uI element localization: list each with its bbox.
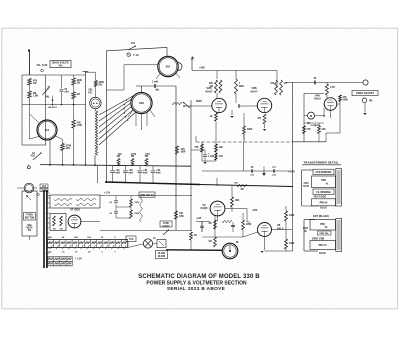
svg-text:1570: 1570 <box>131 154 137 156</box>
svg-text:BLUE: BLUE <box>320 207 327 210</box>
svg-text:100K: 100K <box>289 243 295 245</box>
svg-text:LEADS: LEADS <box>162 225 170 228</box>
svg-text:PRI: PRI <box>320 222 325 226</box>
svg-text:Adj: Adj <box>155 89 159 92</box>
svg-text:+250: +250 <box>199 66 205 70</box>
svg-text:1M: 1M <box>77 94 80 96</box>
svg-text:1M: 1M <box>240 189 243 191</box>
svg-text:132V: 132V <box>303 228 309 230</box>
svg-text:mfd: mfd <box>143 171 148 174</box>
svg-text:66A: 66A <box>166 66 171 69</box>
svg-text:mfd: mfd <box>115 171 120 174</box>
svg-text:640: 640 <box>139 101 144 105</box>
svg-text:6AU7: 6AU7 <box>205 89 213 93</box>
svg-text:mfd: mfd <box>272 174 277 176</box>
svg-text:PLT: PLT <box>88 93 93 95</box>
svg-text:27K: 27K <box>307 129 312 131</box>
svg-text:SCHEMATIC DIAGRAM OF MODEL: SCHEMATIC DIAGRAM OF MODEL 330 B <box>138 274 260 280</box>
svg-text:3K: 3K <box>62 237 65 239</box>
svg-text:10W: 10W <box>181 152 187 154</box>
svg-text:50-60: 50-60 <box>303 186 310 188</box>
svg-text:+125: +125 <box>196 218 202 220</box>
svg-text:500K: 500K <box>343 100 349 102</box>
svg-text:ADJUST: ADJUST <box>48 106 57 109</box>
svg-text:12K: 12K <box>322 129 327 131</box>
svg-text:220K: 220K <box>246 224 252 226</box>
svg-text:4.5V: 4.5V <box>145 153 150 156</box>
svg-text:15K: 15K <box>181 149 186 151</box>
svg-text:F 1A: F 1A <box>134 54 140 57</box>
svg-text:V7 OD3: V7 OD3 <box>70 208 80 212</box>
svg-text:6AQ5: 6AQ5 <box>201 206 208 210</box>
svg-text:10%: 10% <box>66 148 71 150</box>
svg-text:TVS: TVS <box>129 239 134 241</box>
svg-text:PB: PB <box>369 100 373 103</box>
svg-text:MEG: MEG <box>239 86 244 88</box>
svg-text:BLOW: BLOW <box>158 256 166 258</box>
svg-text:6AL5: 6AL5 <box>314 96 321 100</box>
svg-text:GRN YEL: GRN YEL <box>319 233 329 235</box>
svg-text:+ 1.5V: + 1.5V <box>288 171 295 173</box>
svg-text:FIL WINDING: FIL WINDING <box>316 192 331 194</box>
svg-text:M: M <box>310 114 312 118</box>
svg-text:SERIAL 2023 B ABOVE: SERIAL 2023 B ABOVE <box>167 286 226 292</box>
svg-text:BLUE: BLUE <box>319 252 326 255</box>
svg-text:GRNT GRN: GRNT GRN <box>312 238 325 240</box>
svg-text:1M: 1M <box>208 241 211 243</box>
svg-text:POWER SUPPLY & VOLTMETER S: POWER SUPPLY & VOLTMETER SECTION <box>146 281 247 287</box>
svg-text:o Adjust: o Adjust <box>310 124 319 127</box>
svg-text:+ 1.5V: + 1.5V <box>75 259 82 261</box>
svg-text:BAL: BAL <box>45 96 50 99</box>
svg-text:1M: 1M <box>53 229 56 231</box>
svg-text:BUTTON: BUTTON <box>25 218 35 220</box>
svg-text:100K: 100K <box>134 202 140 204</box>
svg-text:mfd: mfd <box>156 171 161 174</box>
svg-text:1.5M: 1.5M <box>33 96 38 98</box>
svg-text:4.7K: 4.7K <box>330 86 335 89</box>
svg-text:1M: 1M <box>208 223 211 225</box>
svg-text:PUSH: PUSH <box>26 215 33 217</box>
svg-text:HEAT WDG: HEAT WDG <box>314 196 327 199</box>
svg-text:390K: 390K <box>247 129 253 131</box>
svg-text:PRI #2: PRI #2 <box>320 201 328 205</box>
svg-text:1 mfd: 1 mfd <box>152 82 159 84</box>
svg-text:FIL. 6.3V: FIL. 6.3V <box>37 63 48 67</box>
svg-text:100K: 100K <box>289 215 295 217</box>
svg-text:15K: 15K <box>179 213 184 215</box>
svg-text:1 mfd: 1 mfd <box>208 156 215 158</box>
svg-text:TRANSFORMER DETAIL: TRANSFORMER DETAIL <box>303 161 338 165</box>
svg-text:mfd: mfd <box>65 92 70 94</box>
svg-text:1.5W: 1.5W <box>77 125 83 127</box>
svg-text:+250: +250 <box>252 210 258 212</box>
svg-text:PRI #4: PRI #4 <box>319 243 327 247</box>
svg-text:15K: 15K <box>48 237 52 239</box>
svg-text:6AU7: 6AU7 <box>250 89 258 93</box>
svg-text:+1.5V: +1.5V <box>104 193 111 195</box>
svg-text:ZERO ADJUST: ZERO ADJUST <box>356 91 374 95</box>
svg-text:TIME DELAY: TIME DELAY <box>140 194 154 197</box>
svg-text:SLOW: SLOW <box>158 253 166 255</box>
svg-text:GRY (BLACK): GRY (BLACK) <box>313 215 329 218</box>
svg-text:100K: 100K <box>134 213 140 215</box>
svg-text:ADJ: ADJ <box>30 155 35 158</box>
svg-text:115V: 115V <box>303 183 309 185</box>
svg-text:66A: 66A <box>45 129 50 132</box>
svg-text:39K: 39K <box>235 200 240 202</box>
svg-text:22K: 22K <box>209 83 214 85</box>
svg-text:1K: 1K <box>210 116 213 118</box>
svg-text:mfd: mfd <box>250 174 255 176</box>
svg-text:V81: V81 <box>88 90 93 92</box>
svg-text:115: 115 <box>131 42 136 45</box>
svg-text:1M: 1M <box>60 229 63 231</box>
svg-text:5%: 5% <box>28 230 31 232</box>
svg-text:PRI: PRI <box>321 178 326 182</box>
svg-text:HTR WINDING: HTR WINDING <box>316 172 332 174</box>
svg-text:75K: 75K <box>194 147 199 149</box>
svg-text:F1A: F1A <box>42 185 47 188</box>
svg-text:300K: 300K <box>196 100 202 103</box>
svg-text:5K: 5K <box>194 235 197 237</box>
svg-text:mfd: mfd <box>128 171 133 174</box>
